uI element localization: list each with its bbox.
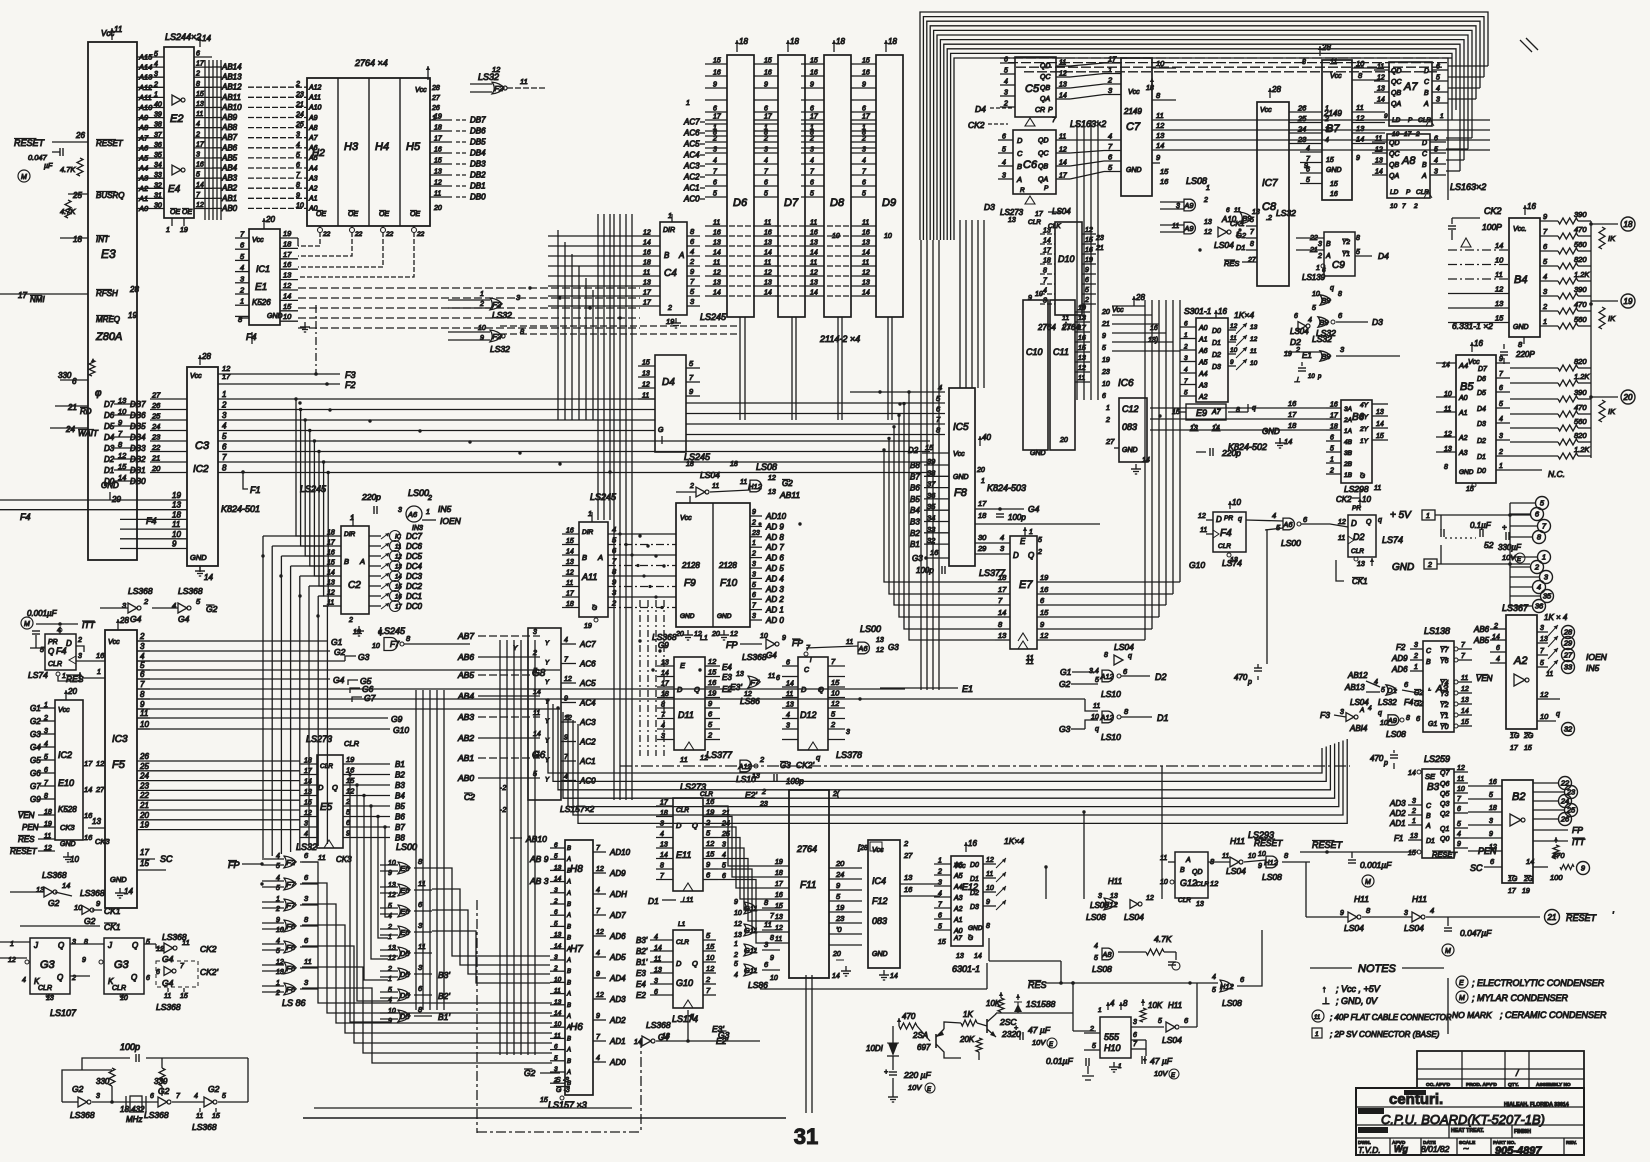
svg-text:12: 12	[1250, 336, 1258, 343]
svg-text:Vcc: Vcc	[190, 373, 202, 380]
svg-text:FP: FP	[726, 640, 738, 650]
svg-text:14: 14	[832, 973, 840, 980]
svg-text:470: 470	[1574, 300, 1587, 309]
svg-text:F4: F4	[146, 516, 157, 526]
svg-text:2: 2	[1203, 197, 1208, 204]
svg-text:9: 9	[480, 335, 484, 342]
svg-text:AB11: AB11	[221, 93, 241, 102]
svg-text:21: 21	[1547, 913, 1557, 922]
svg-text:D2: D2	[104, 455, 115, 464]
svg-text:QD: QD	[1192, 869, 1203, 876]
svg-text:0.001µF: 0.001µF	[27, 609, 58, 618]
svg-text:D1: D1	[104, 466, 114, 475]
svg-text:B9: B9	[1319, 318, 1329, 327]
svg-text:9: 9	[1499, 356, 1503, 363]
svg-text:F6: F6	[286, 964, 296, 973]
svg-text:16: 16	[84, 833, 93, 842]
svg-text:IC7: IC7	[1262, 178, 1278, 189]
svg-text:10: 10	[1356, 59, 1365, 68]
svg-text:15: 15	[642, 360, 650, 367]
svg-text:21: 21	[295, 101, 304, 108]
svg-text:GND: GND	[60, 841, 76, 848]
svg-text:LS08: LS08	[1222, 998, 1242, 1008]
svg-text:9: 9	[1457, 841, 1461, 848]
svg-text:q: q	[1378, 517, 1382, 524]
svg-text:Q: Q	[132, 941, 138, 950]
svg-text:WAIT: WAIT	[78, 429, 99, 438]
svg-text:DB0: DB0	[470, 193, 486, 202]
svg-text:G2: G2	[782, 479, 793, 488]
svg-text:24: 24	[139, 772, 149, 781]
svg-text:17: 17	[196, 61, 205, 68]
svg-text:Vcc: Vcc	[1112, 307, 1124, 314]
svg-text:4Y: 4Y	[1360, 402, 1369, 409]
svg-text:18: 18	[790, 37, 799, 46]
svg-text:D7: D7	[784, 197, 799, 209]
svg-text:4B: 4B	[1344, 439, 1353, 446]
svg-text:1: 1	[734, 941, 738, 948]
svg-text:5: 5	[1085, 287, 1089, 294]
svg-text:E6: E6	[400, 886, 410, 895]
svg-text:14: 14	[304, 779, 312, 786]
svg-text:B9: B9	[1242, 214, 1252, 223]
svg-text:12: 12	[1338, 519, 1346, 526]
svg-text:6: 6	[862, 106, 866, 113]
svg-text:4: 4	[222, 422, 227, 431]
svg-text:083: 083	[872, 916, 887, 926]
svg-text:2149: 2149	[1123, 107, 1142, 116]
svg-text:Y1: Y1	[1342, 251, 1350, 258]
svg-text:B: B	[1326, 241, 1331, 248]
svg-text:LS86: LS86	[740, 696, 760, 706]
svg-text:G7: G7	[364, 693, 376, 703]
svg-text:7: 7	[140, 680, 145, 689]
svg-text:G2: G2	[72, 1084, 84, 1094]
svg-text:LS245: LS245	[300, 484, 327, 494]
svg-text:4: 4	[938, 891, 942, 898]
svg-text:11: 11	[182, 938, 190, 947]
svg-text:21: 21	[1095, 245, 1104, 252]
svg-text:G3: G3	[40, 959, 56, 971]
svg-text:3: 3	[846, 729, 850, 736]
svg-text:E3': E3'	[730, 682, 742, 692]
svg-text:F2: F2	[494, 84, 504, 93]
svg-text:F5: F5	[112, 759, 126, 771]
svg-text:14: 14	[764, 290, 772, 297]
svg-text:p: p	[1247, 679, 1252, 686]
svg-text:DB7: DB7	[130, 400, 146, 409]
svg-text:15: 15	[764, 58, 772, 65]
svg-text:19: 19	[346, 755, 355, 764]
svg-text:2128: 2128	[718, 561, 737, 570]
svg-text:4: 4	[1004, 79, 1008, 86]
svg-text:16: 16	[1040, 585, 1049, 594]
svg-text:16: 16	[713, 70, 721, 77]
svg-text:1G: 1G	[1508, 876, 1518, 883]
svg-text:14: 14	[566, 549, 574, 556]
svg-text:LS04: LS04	[1162, 1035, 1182, 1045]
svg-text:2: 2	[139, 632, 145, 641]
svg-text:Vcc: Vcc	[680, 515, 692, 522]
svg-text:2: 2	[295, 81, 300, 88]
svg-text:13: 13	[764, 280, 772, 287]
svg-text:B: B	[567, 902, 571, 908]
svg-text:AB4: AB4	[221, 164, 238, 173]
svg-text:1: 1	[752, 540, 756, 547]
svg-text:H12: H12	[748, 482, 763, 491]
svg-text:B6: B6	[395, 813, 405, 822]
svg-text:LS157×2: LS157×2	[560, 804, 595, 814]
svg-text:3B: 3B	[1344, 450, 1353, 457]
svg-text:2: 2	[1534, 563, 1540, 572]
svg-text:DB2: DB2	[130, 455, 146, 464]
svg-text:F2: F2	[345, 380, 356, 390]
svg-text:13: 13	[434, 169, 442, 176]
svg-text:·2: ·2	[500, 785, 506, 792]
svg-text:B: B	[1424, 90, 1429, 97]
svg-text:LS368: LS368	[144, 1110, 169, 1120]
svg-text:Q7: Q7	[1440, 770, 1450, 777]
svg-text:G3: G3	[358, 652, 370, 662]
svg-text:D1: D1	[1236, 243, 1246, 252]
svg-text:14: 14	[1495, 241, 1503, 250]
svg-text:4: 4	[1306, 146, 1310, 153]
svg-text:18: 18	[686, 461, 694, 468]
svg-text:8: 8	[1356, 235, 1360, 242]
svg-text:9: 9	[752, 509, 756, 516]
svg-text:16: 16	[810, 70, 818, 77]
svg-text:D: D	[318, 783, 324, 792]
svg-text:A6: A6	[1198, 348, 1208, 355]
svg-text:DB3: DB3	[470, 160, 486, 169]
svg-text:1K × 4: 1K × 4	[1544, 613, 1568, 622]
svg-text:E4: E4	[168, 184, 181, 195]
svg-text:4: 4	[1002, 160, 1006, 167]
svg-text:11: 11	[327, 600, 334, 607]
svg-text:AB 9: AB 9	[529, 854, 549, 864]
svg-text:7: 7	[1402, 203, 1406, 210]
svg-text:083: 083	[1122, 422, 1137, 432]
svg-text:3: 3	[1540, 625, 1544, 632]
svg-text:4: 4	[596, 950, 600, 957]
svg-text:Vcc: Vcc	[1330, 73, 1342, 80]
svg-text:AB8: AB8	[221, 123, 238, 132]
svg-text:Vcc: Vcc	[415, 87, 427, 94]
svg-text:D4: D4	[104, 433, 115, 442]
svg-text:14: 14	[196, 182, 204, 189]
svg-text:8: 8	[296, 182, 300, 189]
svg-text:F11: F11	[800, 880, 817, 891]
svg-text:H11: H11	[1354, 894, 1369, 904]
svg-text:3: 3	[752, 571, 756, 578]
svg-text:AC5: AC5	[579, 679, 596, 688]
svg-text:2: 2	[689, 257, 695, 266]
svg-text:12: 12	[434, 180, 442, 187]
svg-text:1B: 1B	[1344, 472, 1353, 479]
svg-text:A: A	[1325, 253, 1331, 260]
svg-text:D5: D5	[400, 970, 410, 979]
svg-text:G1: G1	[30, 704, 41, 713]
svg-text:12: 12	[708, 657, 717, 666]
svg-text:4: 4	[304, 831, 308, 838]
svg-text:5: 5	[276, 863, 280, 870]
svg-text:A6: A6	[857, 644, 868, 653]
svg-text:18: 18	[660, 810, 668, 817]
svg-text:AD10: AD10	[609, 848, 631, 857]
svg-text:3: 3	[786, 723, 790, 730]
svg-text:2: 2	[427, 495, 432, 502]
svg-text:A1: A1	[1458, 410, 1468, 417]
svg-text:4: 4	[596, 887, 600, 894]
svg-text:24: 24	[65, 425, 75, 434]
svg-text:CK2: CK2	[200, 944, 217, 954]
svg-text:8: 8	[1406, 715, 1410, 722]
svg-text:3: 3	[1489, 818, 1493, 825]
svg-text:23: 23	[1297, 135, 1307, 144]
svg-text:6: 6	[1499, 385, 1503, 392]
svg-text:15: 15	[566, 538, 574, 545]
svg-text:Q: Q	[332, 783, 338, 792]
svg-text:3: 3	[764, 147, 768, 154]
svg-text:A: A	[566, 1070, 571, 1076]
svg-text:AD1: AD1	[1389, 819, 1406, 828]
svg-text:4: 4	[690, 247, 694, 256]
svg-text:M: M	[24, 621, 30, 628]
svg-text:IC2: IC2	[58, 750, 72, 760]
svg-text:': '	[1612, 910, 1614, 920]
svg-text:LS273: LS273	[306, 734, 332, 744]
svg-text:19: 19	[1040, 573, 1049, 582]
svg-text:B5: B5	[910, 495, 920, 504]
svg-text:A9: A9	[1183, 224, 1194, 233]
svg-text:10: 10	[388, 1008, 396, 1015]
svg-text:11: 11	[554, 988, 561, 995]
svg-text:D2: D2	[1353, 532, 1365, 542]
svg-text:A12: A12	[308, 85, 322, 92]
svg-text:19: 19	[1522, 888, 1530, 895]
svg-text:10: 10	[1457, 786, 1465, 793]
svg-text:18: 18	[643, 260, 651, 267]
svg-text:8: 8	[1444, 464, 1448, 471]
svg-text:10: 10	[478, 325, 486, 332]
svg-text:10: 10	[770, 975, 778, 982]
svg-text:10: 10	[372, 643, 380, 650]
svg-text:11: 11	[1172, 223, 1179, 230]
svg-text:G2: G2	[1414, 701, 1423, 708]
svg-text:Q3: Q3	[1440, 801, 1449, 808]
svg-text:⊥: ⊥	[1322, 996, 1330, 1006]
svg-text:QC: QC	[1389, 151, 1400, 158]
svg-text:CK3: CK3	[95, 837, 110, 846]
svg-text:12: 12	[1059, 147, 1067, 154]
svg-text:3: 3	[78, 653, 82, 660]
svg-text:DC1: DC1	[406, 592, 422, 601]
svg-text:D3: D3	[1372, 317, 1383, 327]
svg-text:A6: A6	[407, 510, 418, 519]
svg-text:2: 2	[275, 906, 280, 913]
svg-text:G2: G2	[48, 898, 60, 908]
svg-text:4: 4	[196, 121, 200, 128]
svg-text:N.C.: N.C.	[1548, 469, 1565, 479]
svg-text:1Y: 1Y	[1360, 438, 1369, 445]
svg-text:⊥: ⊥	[1294, 377, 1300, 384]
svg-text:22: 22	[354, 231, 363, 238]
svg-text:GND: GND	[872, 951, 888, 958]
svg-text:A: A	[1423, 101, 1429, 108]
svg-text:11: 11	[318, 853, 326, 862]
svg-text:4: 4	[1543, 272, 1547, 281]
svg-text:AB13: AB13	[1344, 683, 1365, 692]
svg-text:AD0: AD0	[609, 1058, 626, 1067]
svg-text:9: 9	[1028, 295, 1032, 302]
svg-text:~: ~	[1463, 1144, 1469, 1155]
svg-text:14: 14	[202, 34, 211, 43]
svg-text:19: 19	[283, 229, 292, 238]
svg-text:Y2: Y2	[1440, 702, 1449, 709]
svg-text:D: D	[676, 821, 682, 830]
svg-text:AB3: AB3	[457, 712, 474, 722]
svg-text:470: 470	[1574, 225, 1587, 234]
svg-text:9: 9	[764, 82, 768, 89]
svg-text:MHz: MHz	[126, 1115, 142, 1124]
svg-text:D: D	[1013, 551, 1019, 560]
svg-text:15: 15	[862, 58, 870, 65]
svg-text:14: 14	[1059, 160, 1067, 167]
svg-text:10: 10	[283, 312, 292, 321]
svg-text:14: 14	[660, 852, 668, 859]
svg-text:GND: GND	[1459, 469, 1474, 476]
svg-text:G: G	[968, 935, 973, 942]
svg-text:D3: D3	[1212, 364, 1221, 371]
svg-text:8: 8	[661, 702, 665, 709]
svg-text:F2: F2	[1396, 643, 1406, 652]
svg-text:E2': E2'	[716, 1036, 728, 1046]
svg-text:1: 1	[1108, 65, 1112, 74]
svg-text:DB6: DB6	[470, 127, 486, 136]
svg-text:12: 12	[734, 921, 742, 928]
svg-text:25: 25	[1297, 114, 1307, 123]
svg-text:H12: H12	[1264, 858, 1279, 867]
svg-text:18: 18	[566, 601, 574, 608]
svg-text:15: 15	[540, 1097, 548, 1104]
svg-text:NOTES: NOTES	[1358, 963, 1397, 975]
svg-text:5: 5	[1306, 177, 1310, 184]
svg-text:A: A	[566, 1048, 571, 1054]
svg-text:220 µF: 220 µF	[903, 1070, 931, 1080]
svg-text:B4: B4	[910, 506, 920, 515]
svg-text:14: 14	[764, 250, 772, 257]
svg-text:C12: C12	[1122, 404, 1139, 414]
svg-text:A12: A12	[1099, 672, 1114, 681]
svg-text:DB1: DB1	[470, 182, 486, 191]
svg-text:; Vcc , +5V: ; Vcc , +5V	[1336, 984, 1381, 994]
svg-text:4: 4	[764, 158, 768, 165]
svg-text:4: 4	[1434, 158, 1438, 165]
svg-text:G11: G11	[744, 966, 758, 975]
svg-text:22: 22	[416, 231, 425, 238]
svg-text:2320: 2320	[1001, 1029, 1021, 1039]
svg-text:2: 2	[1411, 808, 1416, 815]
svg-text:9: 9	[713, 82, 717, 89]
svg-text:18: 18	[1330, 424, 1338, 431]
svg-text:3: 3	[533, 629, 537, 636]
svg-text:20: 20	[832, 951, 841, 958]
svg-text:A4: A4	[953, 884, 963, 891]
svg-text:17: 17	[862, 114, 871, 121]
svg-text:GND: GND	[1030, 450, 1046, 457]
svg-text:18.432: 18.432	[120, 1105, 145, 1114]
svg-text:5: 5	[276, 885, 280, 892]
svg-text:G ·3: G ·3	[556, 1087, 570, 1094]
svg-text:9: 9	[1258, 863, 1262, 870]
svg-text:A6: A6	[1282, 520, 1293, 529]
svg-text:1: 1	[1184, 332, 1188, 339]
svg-text:19: 19	[1624, 297, 1633, 306]
svg-text:2: 2	[1183, 344, 1188, 351]
svg-text:RFSH: RFSH	[96, 289, 118, 298]
svg-text:12: 12	[1059, 71, 1067, 78]
svg-text:11: 11	[764, 220, 771, 227]
svg-text:F1: F1	[250, 485, 261, 495]
svg-text:AB11: AB11	[779, 490, 800, 500]
svg-text:+: +	[1014, 1025, 1018, 1032]
svg-text:E3: E3	[101, 247, 116, 261]
svg-text:A11: A11	[581, 572, 597, 582]
svg-text:B: B	[567, 969, 571, 975]
svg-text:A4: A4	[1458, 361, 1468, 370]
svg-text:16: 16	[1330, 402, 1338, 409]
svg-text:12: 12	[1230, 323, 1238, 330]
svg-text:1.2K: 1.2K	[1574, 445, 1590, 454]
svg-text:D1: D1	[1387, 686, 1397, 695]
svg-text:A6: A6	[953, 862, 963, 869]
svg-text:1: 1	[810, 125, 814, 132]
svg-text:OE: OE	[379, 211, 389, 218]
svg-text:5: 5	[1540, 660, 1544, 667]
svg-text:11: 11	[196, 111, 203, 118]
svg-text:15: 15	[1495, 314, 1504, 323]
svg-text:13: 13	[642, 371, 650, 378]
svg-text:2764 ×4: 2764 ×4	[354, 58, 388, 68]
svg-text:D: D	[1422, 140, 1427, 147]
svg-text:12: 12	[1375, 147, 1383, 154]
svg-text:6: 6	[752, 592, 756, 599]
svg-text:D2: D2	[970, 890, 979, 897]
svg-text:5: 5	[1212, 987, 1216, 994]
svg-text:10: 10	[554, 976, 562, 983]
svg-text:12: 12	[1198, 513, 1206, 520]
svg-text:20: 20	[835, 859, 845, 868]
svg-text:12: 12	[810, 270, 818, 277]
svg-text:AB5: AB5	[457, 670, 474, 680]
svg-text:q: q	[1252, 405, 1256, 412]
svg-text:AD9: AD9	[609, 869, 626, 878]
svg-text:12: 12	[986, 857, 994, 864]
svg-text:12: 12	[596, 866, 604, 873]
svg-text:17: 17	[1330, 413, 1339, 420]
svg-text:5: 5	[752, 582, 756, 589]
svg-text:27: 27	[1247, 257, 1257, 264]
svg-text:G4: G4	[1028, 504, 1040, 514]
svg-text:12: 12	[596, 992, 604, 999]
svg-text:Q2: Q2	[1440, 811, 1449, 818]
svg-text:4: 4	[1457, 831, 1461, 838]
svg-text:Q: Q	[131, 973, 137, 982]
svg-text:47 µF: 47 µF	[1028, 1025, 1051, 1035]
svg-text:6: 6	[1133, 1032, 1137, 1039]
svg-text:11: 11	[713, 220, 720, 227]
svg-text:16: 16	[1078, 335, 1086, 342]
